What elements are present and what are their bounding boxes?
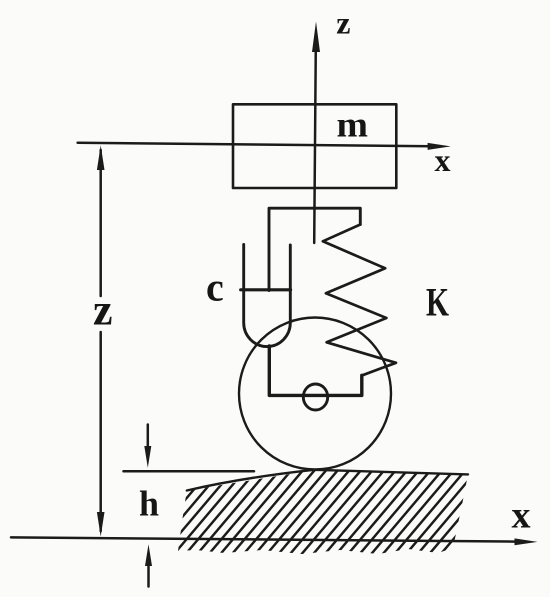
svg-text:m: m [337, 105, 369, 145]
svg-text:h: h [139, 484, 159, 524]
h reference line [124, 470, 255, 473]
bottom x axis arrowhead [515, 538, 538, 545]
spring K zigzag [323, 225, 396, 376]
damper piston plate [241, 288, 291, 291]
road surface line [187, 470, 468, 491]
svg-text:z: z [336, 5, 350, 41]
mass box [233, 104, 396, 188]
damper cylinder cup [244, 245, 291, 347]
svg-text:x: x [512, 495, 531, 537]
ground hatching [96, 453, 550, 564]
wheel circle [239, 318, 391, 470]
h dimension upper arrow [147, 425, 150, 450]
svg-text:x: x [435, 142, 451, 178]
z axis line [314, 46, 316, 243]
z dimension top arrowhead [97, 145, 105, 170]
z dimension line lower segment [99, 332, 102, 531]
z dimension line upper segment [99, 150, 102, 296]
svg-text:z: z [93, 286, 113, 335]
bottom x axis line [11, 537, 515, 541]
yoke (bracket under mass) [269, 208, 360, 290]
z dimension bottom arrowhead [97, 512, 105, 537]
svg-text:c: c [206, 265, 224, 310]
damper stem and axle frame [269, 346, 362, 395]
z axis arrowhead [312, 22, 320, 53]
h dimension lower arrow [147, 562, 150, 587]
x axis arrowhead [428, 143, 451, 150]
axle pivot circle [303, 384, 327, 410]
svg-text:K: K [426, 280, 449, 325]
x axis line [78, 143, 431, 146]
